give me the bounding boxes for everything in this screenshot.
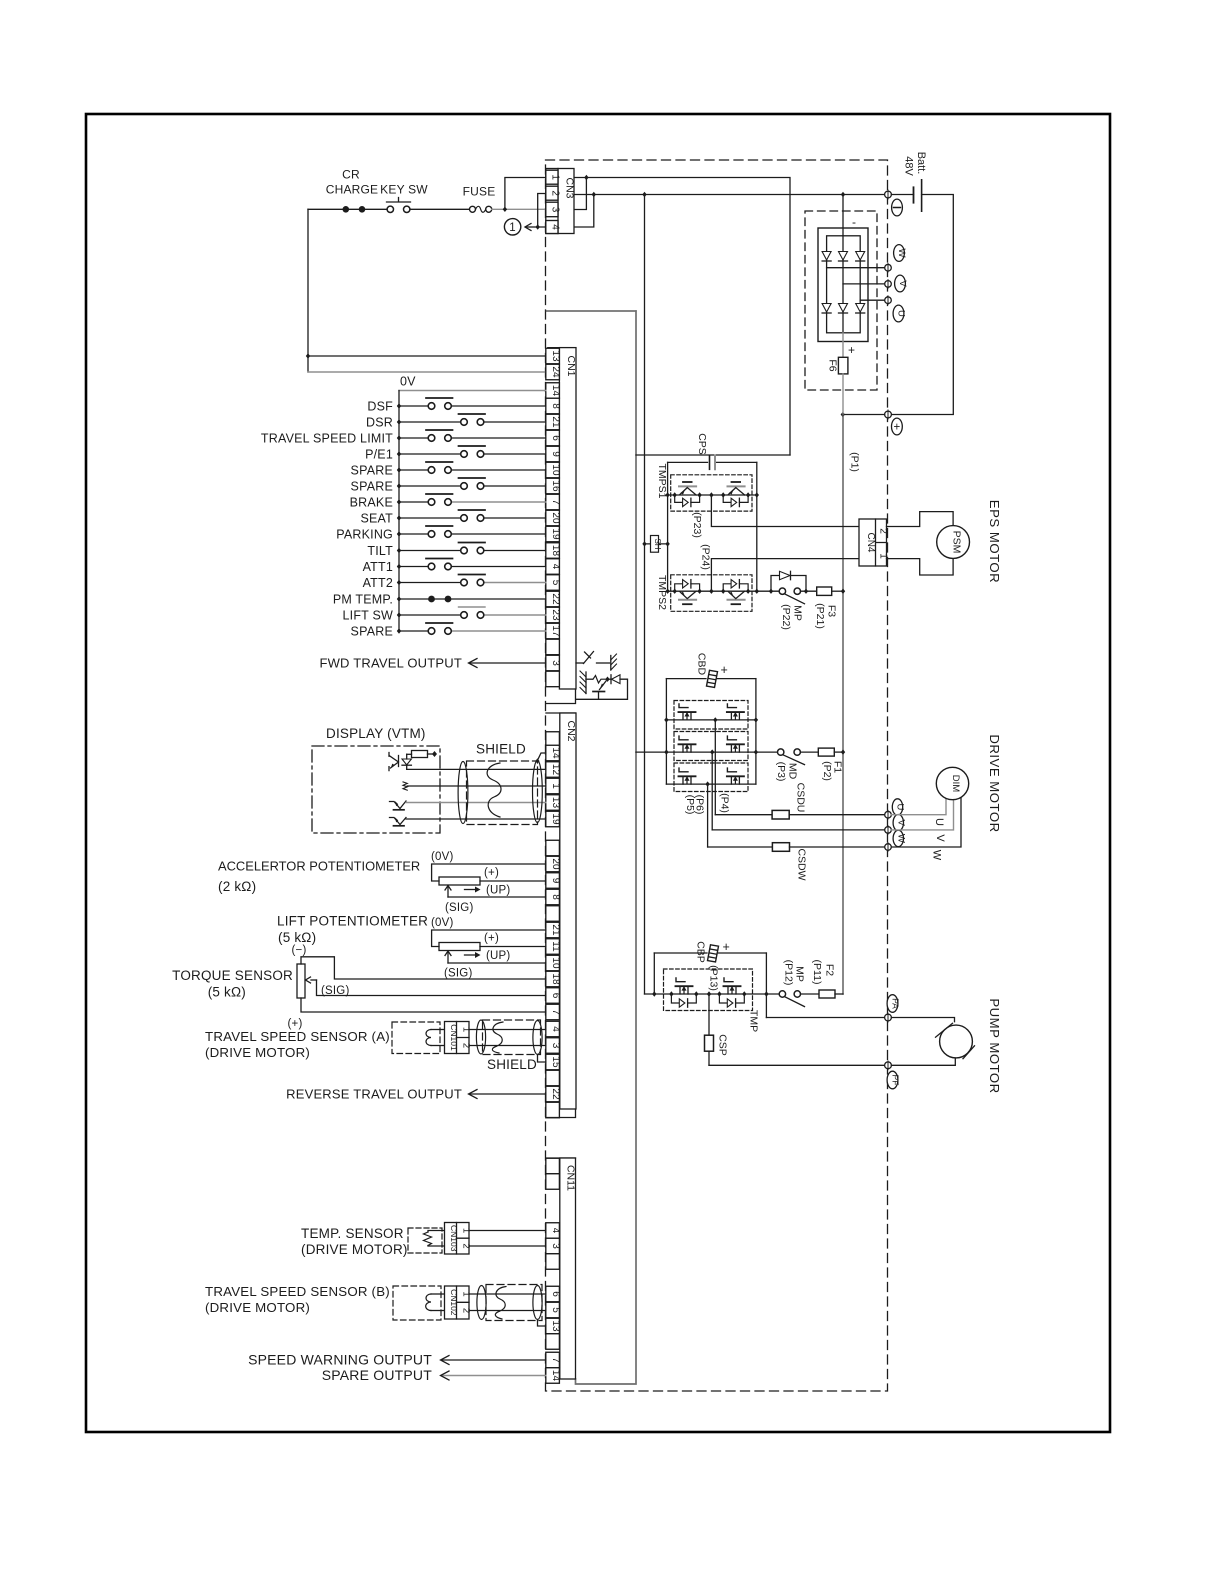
motor DIM (drive)	[936, 767, 968, 799]
svg-text:PSM: PSM	[951, 531, 963, 554]
wire: sensor B to pin5	[469, 1310, 546, 1312]
speed sensor A dashed box	[392, 1022, 440, 1054]
svg-text:(0V): (0V)	[431, 851, 454, 863]
svg-text:4: 4	[549, 224, 560, 230]
wire: TMPS2 output to CN4 pin1 (P24)	[711, 559, 876, 592]
svg-text:1: 1	[509, 222, 516, 234]
svg-text:SPARE: SPARE	[351, 625, 393, 639]
fuse F6	[842, 333, 844, 358]
CN1 pin 9	[546, 446, 560, 462]
svg-text:14: 14	[550, 1370, 561, 1382]
svg-text:(+): (+)	[484, 867, 499, 879]
CN1 pin 23	[546, 607, 560, 623]
terminal U	[885, 811, 892, 818]
wire: CN3 pin3 riser joins pin1 line	[574, 178, 586, 210]
wire	[891, 194, 913, 196]
switch MP (P22) EPS	[779, 588, 785, 594]
sensor A coil	[431, 1029, 445, 1031]
label (U) ellipse	[893, 305, 904, 322]
svg-text:W: W	[896, 834, 907, 843]
connector CN3	[546, 169, 574, 234]
terminal U	[885, 297, 892, 304]
svg-text:CPS: CPS	[696, 433, 708, 455]
CN2 pin 14	[546, 745, 560, 761]
svg-text:F3: F3	[826, 605, 838, 617]
wire: link battery-negative feed y=455	[636, 454, 790, 456]
label (-) ellipse	[892, 199, 903, 216]
CN11 pin 13	[546, 1318, 560, 1334]
svg-text:CSP: CSP	[717, 1034, 729, 1056]
svg-text:TILT: TILT	[367, 544, 393, 558]
svg-text:ATT1: ATT1	[363, 560, 393, 574]
junction	[605, 677, 609, 682]
svg-text:7: 7	[550, 1009, 561, 1015]
transistor driver	[600, 681, 607, 690]
display resistor	[412, 751, 428, 758]
connector CN101	[445, 1022, 470, 1054]
svg-text:SHIELD: SHIELD	[476, 742, 526, 757]
CN1 pin 16	[546, 478, 560, 494]
wire: rectifier negative feed	[842, 195, 844, 236]
svg-text:0V: 0V	[400, 375, 416, 389]
CN3 pin 3	[546, 202, 558, 217]
svg-text:CN2: CN2	[565, 720, 577, 741]
switch SPARE input	[399, 485, 461, 487]
CN3 pin 4	[546, 221, 558, 234]
svg-text:+: +	[894, 422, 901, 434]
svg-text:CR: CR	[342, 168, 360, 182]
wire: sensor A to pin3	[469, 1045, 546, 1047]
svg-text:U: U	[895, 804, 906, 811]
chassis symbol right	[610, 656, 612, 671]
svg-text:REVERSE TRAVEL OUTPUT: REVERSE TRAVEL OUTPUT	[286, 1087, 462, 1102]
wire: FWD TRAVEL OUTPUT arrow	[470, 662, 546, 664]
page border frame	[86, 114, 1110, 1432]
CN11 pin 4	[546, 1223, 560, 1239]
CN1 pin 14	[546, 383, 560, 399]
svg-text:5: 5	[550, 580, 561, 586]
svg-text:V: V	[934, 834, 946, 842]
svg-text:20: 20	[550, 858, 561, 870]
connector CN103	[445, 1223, 470, 1255]
svg-text:(P2): (P2)	[821, 761, 833, 781]
svg-text:DRIVE MOTOR: DRIVE MOTOR	[987, 734, 1002, 832]
wire: positive row to P1	[843, 414, 885, 416]
connector CN4	[859, 519, 887, 566]
svg-text:ATT2: ATT2	[363, 576, 393, 590]
current sensor CSDU	[715, 814, 772, 816]
svg-text:CN103: CN103	[449, 1225, 459, 1252]
wire: U phase riser (P4)	[714, 720, 716, 815]
svg-text:10: 10	[550, 957, 561, 969]
svg-text:(DRIVE MOTOR): (DRIVE MOTOR)	[205, 1045, 310, 1060]
relay coil	[586, 678, 593, 680]
svg-text:CN1: CN1	[565, 355, 577, 376]
diode rectifier top column 3	[856, 252, 865, 261]
CN1 pin 18	[546, 543, 560, 559]
CN1 pin 22	[546, 591, 560, 607]
wire: CN3 pin2/pin4 left tie	[538, 194, 546, 228]
capacitor CBP	[654, 952, 766, 954]
svg-text:CN101: CN101	[449, 1024, 459, 1051]
speed sensor B dashed box	[393, 1286, 441, 1320]
junction: negative bus top	[642, 192, 646, 197]
wire: drive bridge negative feed	[636, 751, 666, 753]
wire: riser to CN3 pin1	[505, 178, 546, 210]
svg-text:P/E1: P/E1	[365, 448, 393, 462]
CN1 pin 4	[546, 559, 560, 575]
svg-text:CN11: CN11	[565, 1165, 577, 1191]
CN2 blank cell	[546, 840, 560, 856]
CN11 pin 5	[546, 1302, 560, 1318]
switch SPARE input	[399, 630, 428, 632]
fuse F2 (P11)	[801, 993, 820, 995]
terminal PF	[885, 1062, 892, 1069]
acc pot wiper to pin8	[448, 896, 546, 898]
lift pot wiper to pin10	[448, 962, 546, 964]
svg-text:CSDW: CSDW	[796, 848, 808, 880]
CN2 connector bottom skirt	[546, 1109, 576, 1118]
svg-text:4: 4	[550, 564, 561, 570]
wire: sensor A to pin4	[469, 1029, 546, 1031]
junction	[584, 175, 588, 180]
wire: W phase riser	[707, 784, 709, 847]
svg-text:22: 22	[550, 1088, 561, 1100]
wire: pump bus	[645, 993, 780, 995]
wire: P1 positive rail (x=843)	[842, 415, 844, 995]
wire: rectifier mid column	[842, 236, 844, 333]
svg-text:EPS MOTOR: EPS MOTOR	[987, 500, 1002, 583]
charger rectifier dashed enclosure	[805, 211, 877, 390]
(UP) arrow lift	[465, 954, 479, 956]
wire: battery minus row from CN3 pin2	[574, 194, 885, 196]
svg-text:TRAVEL SPEED LIMIT: TRAVEL SPEED LIMIT	[261, 432, 393, 446]
capacitor CPS	[668, 461, 757, 463]
label (W) ellipse	[893, 830, 903, 846]
switch DSF input	[399, 405, 428, 407]
CN2 pin 15	[546, 1054, 560, 1070]
wire: display to CN2 pin1	[407, 785, 546, 787]
svg-text:(P11): (P11)	[811, 960, 823, 985]
wire	[410, 208, 469, 210]
svg-text:U: U	[933, 818, 945, 826]
battery Batt. 48V	[913, 187, 915, 202]
CN2 pin 1	[546, 778, 560, 794]
CN2 pin 3	[546, 1038, 560, 1054]
display zener	[402, 759, 411, 765]
connector CN1	[548, 347, 576, 349]
svg-text:SHIELD: SHIELD	[487, 1057, 537, 1072]
svg-text:22: 22	[550, 593, 561, 605]
motor PSM (EPS)	[937, 526, 970, 559]
svg-text:PF: PF	[891, 1075, 901, 1086]
transistor module TMPS1	[671, 475, 752, 511]
svg-text:9: 9	[550, 878, 561, 884]
CN2 pin 18	[546, 971, 560, 987]
relay contact (FWD output driver)	[576, 662, 584, 664]
svg-text:CN4: CN4	[865, 532, 876, 552]
CN1 pin 17	[546, 623, 560, 639]
switch ATT2 input	[399, 582, 461, 584]
current sensor CSDW	[708, 846, 773, 848]
svg-text:-: -	[852, 215, 856, 229]
wire: display to CN2 pin13 (gray)	[406, 802, 546, 804]
display transistor row3	[390, 801, 407, 809]
svg-text:(0V): (0V)	[431, 917, 454, 929]
svg-text:PARKING: PARKING	[336, 528, 393, 542]
svg-text:(P21): (P21)	[814, 603, 826, 629]
svg-text:V: V	[896, 820, 907, 827]
label (V) ellipse	[895, 275, 906, 292]
node 1 circle	[504, 219, 520, 235]
svg-text:10: 10	[550, 464, 561, 476]
svg-text:1: 1	[550, 783, 561, 789]
transistor module drive row	[674, 732, 748, 761]
wire: CN3 pin1 to x=790 drop	[574, 178, 790, 456]
terminal W	[885, 844, 892, 851]
transistor module TMPS2	[671, 575, 752, 612]
svg-text:3: 3	[550, 1243, 561, 1249]
svg-text:7: 7	[550, 499, 561, 505]
CN2 pin 21	[546, 922, 560, 938]
svg-text:FWD TRAVEL OUTPUT: FWD TRAVEL OUTPUT	[319, 656, 462, 671]
temp sensor thermistor	[428, 1231, 445, 1233]
fuse FUSE	[470, 206, 476, 212]
switch SEAT input	[399, 517, 461, 519]
junctions drive verticals	[664, 717, 668, 722]
wire: temp sensor to pin3	[469, 1245, 546, 1247]
CN1 pin 10	[546, 462, 560, 478]
svg-text:PA: PA	[891, 998, 901, 1009]
CN1 pin 3	[546, 655, 560, 671]
svg-text:(UP): (UP)	[486, 950, 510, 962]
CN2 blank cell	[546, 906, 560, 922]
svg-text:F6: F6	[827, 359, 839, 371]
svg-text:16: 16	[550, 480, 561, 492]
wire: CBP left lead	[653, 953, 655, 994]
wire: PF return row	[709, 1064, 885, 1066]
svg-text:W: W	[931, 850, 943, 861]
switch MP (P12) pump	[779, 991, 785, 997]
svg-text:(P6): (P6)	[694, 795, 706, 815]
terminal PA	[885, 1014, 892, 1021]
svg-text:TEMP. SENSOR: TEMP. SENSOR	[301, 1226, 404, 1241]
svg-text:TRAVEL SPEED SENSOR (B): TRAVEL SPEED SENSOR (B)	[205, 1284, 390, 1299]
CN2 pin 20	[546, 856, 560, 872]
svg-text:(−): (−)	[292, 945, 307, 957]
wire: input common bus	[398, 391, 400, 632]
svg-text:12: 12	[550, 764, 561, 776]
junction	[503, 207, 507, 212]
svg-text:3: 3	[549, 207, 560, 213]
wire: 0V to pin 14 (gray)	[399, 390, 546, 392]
svg-text:11: 11	[550, 941, 561, 952]
sensor B coil	[431, 1293, 445, 1295]
wire: U to drive motor (gray)	[891, 796, 946, 814]
switch SPARE input	[399, 469, 428, 471]
wire: lift pot (+) to pin11	[480, 946, 546, 948]
svg-text:SPARE: SPARE	[351, 480, 393, 494]
svg-text:3: 3	[550, 1043, 561, 1049]
drive bridge row wire y=752.1	[666, 751, 756, 753]
CN1 blank cell	[546, 639, 560, 655]
svg-text:CBP: CBP	[695, 941, 707, 963]
svg-text:DSR: DSR	[366, 416, 393, 430]
wire: TMPS1 output to CN4 pin2 (P23)	[711, 495, 876, 527]
svg-text:6: 6	[550, 1291, 561, 1297]
current sensor CSP	[708, 994, 710, 1035]
switch MD (P3)	[756, 751, 778, 753]
pump motor	[891, 1018, 954, 1022]
junction P1/F3	[841, 589, 845, 594]
CN2 pin 4	[546, 1021, 560, 1037]
CN11 blank cell	[546, 1174, 560, 1190]
CN3 pin 2	[546, 186, 558, 200]
svg-text:(DRIVE MOTOR): (DRIVE MOTOR)	[205, 1300, 310, 1315]
shield drain to pin15	[538, 1055, 546, 1063]
rectifier bus frame	[827, 236, 861, 333]
svg-text:SH: SH	[653, 538, 662, 549]
CN3 pin 1	[546, 170, 558, 184]
CN11 blank cell	[546, 1334, 560, 1350]
display transistor row4	[390, 818, 407, 825]
svg-text:DIM: DIM	[950, 775, 961, 793]
wire: CHARGE/KEY/FUSE row	[308, 208, 343, 210]
CN2 blank cell	[546, 732, 560, 748]
svg-text:CBD: CBD	[696, 653, 708, 676]
CN1 pin 8	[546, 398, 560, 414]
svg-text:DSF: DSF	[367, 400, 393, 414]
svg-text:MD: MD	[787, 763, 799, 780]
CN11 pin 7	[546, 1352, 560, 1368]
terminal: battery positive	[885, 411, 892, 418]
junction	[536, 224, 540, 229]
wire: SPEED WARNING OUTPUT arrow	[442, 1359, 546, 1361]
CN2 pin 9	[546, 873, 560, 889]
rectifier inner case	[818, 228, 868, 342]
CN2 pin 22	[546, 1086, 560, 1102]
wire: torque (-) to pin18	[301, 957, 546, 979]
svg-text:LIFT SW: LIFT SW	[343, 609, 393, 623]
CN2 blank cell	[546, 1102, 560, 1118]
CN1 pin 6	[546, 430, 560, 446]
wire: display to CN2 pin12	[407, 768, 546, 770]
wire: key switch feed from CN1 (x=308 riser)	[307, 209, 309, 372]
svg-text:8: 8	[550, 403, 561, 409]
wire: battery negative bus (vertical x=644.5)	[644, 195, 646, 995]
svg-text:F2: F2	[824, 964, 836, 976]
shunt SH	[645, 543, 668, 545]
potentiometer lift	[439, 943, 480, 951]
wire: SPARE OUTPUT arrow (gray)	[442, 1375, 546, 1377]
(UP) arrow	[465, 889, 479, 891]
svg-text:(P22): (P22)	[780, 604, 792, 630]
CN11 blank cell	[546, 1254, 560, 1270]
svg-text:BRAKE: BRAKE	[350, 496, 393, 510]
wire: pump output riser	[765, 953, 767, 1018]
CN2 pin 11	[546, 939, 560, 955]
transistor module drive row	[674, 701, 748, 730]
wire: battery positive down right side	[891, 195, 953, 415]
wire: lift pot 0V to pin21	[432, 930, 546, 947]
svg-text:6: 6	[550, 435, 561, 441]
svg-text:21: 21	[550, 416, 561, 428]
svg-text:2: 2	[549, 190, 560, 196]
display opto transistor top	[388, 753, 390, 771]
label (V) ellipse	[893, 815, 903, 831]
svg-text:PUMP MOTOR: PUMP MOTOR	[987, 998, 1002, 1093]
svg-text:24: 24	[550, 366, 561, 378]
svg-text:KEY SW: KEY SW	[380, 183, 428, 197]
wire: U phase tap	[860, 299, 884, 301]
CN1 pin 21	[546, 414, 560, 430]
wire: W to drive motor	[891, 797, 961, 847]
svg-text:ACCELERTOR POTENTIOMETER: ACCELERTOR POTENTIOMETER	[218, 859, 420, 874]
CN2 blank cell	[546, 1070, 560, 1086]
switch PARKING input	[399, 533, 428, 535]
terminal V	[885, 827, 892, 834]
wire: CN4 pin1 to PSM	[887, 558, 954, 575]
CN11 pin 6	[546, 1286, 560, 1302]
wire: fuse to CN3 pin3 (gray)	[492, 208, 546, 210]
fuse F3 (P21)	[801, 590, 817, 592]
svg-text:14: 14	[550, 747, 561, 759]
display VTM dash-dot box	[312, 746, 440, 833]
wire: CN4 pin2 to PSM	[887, 512, 954, 527]
switch ATT1 input	[399, 566, 428, 568]
wire: sensor B to pin6	[469, 1293, 546, 1295]
CN11 pin 3	[546, 1238, 560, 1254]
svg-text:9: 9	[550, 451, 561, 457]
svg-text:LIFT POTENTIOMETER: LIFT POTENTIOMETER	[277, 914, 428, 929]
wire: V phase tap	[843, 283, 885, 285]
svg-text:SEAT: SEAT	[360, 512, 393, 526]
CN1 connector bottom skirt	[546, 689, 576, 704]
svg-text:7: 7	[550, 1357, 561, 1363]
label (U) ellipse	[892, 799, 902, 815]
connector CN2	[546, 712, 576, 714]
pump MOSFET unit left	[676, 985, 693, 987]
label (W) ellipse	[894, 245, 905, 262]
wire	[365, 208, 387, 210]
diode flyback	[608, 678, 611, 680]
shield drain to pin13	[538, 1321, 546, 1327]
svg-text:18: 18	[550, 545, 561, 557]
torque sensor body	[297, 964, 305, 998]
svg-text:17: 17	[550, 625, 561, 637]
wire: V phase row	[712, 829, 885, 831]
switch BRAKE input	[399, 501, 428, 503]
junction	[841, 412, 845, 417]
svg-text:19: 19	[550, 528, 561, 540]
wire: V to drive motor (gray)	[891, 800, 953, 830]
svg-text:(DRIVE MOTOR): (DRIVE MOTOR)	[301, 1242, 408, 1257]
svg-text:V: V	[897, 280, 908, 287]
svg-text:4: 4	[550, 1228, 561, 1234]
svg-text:(P12): (P12)	[783, 960, 795, 986]
switch P/E1 input	[399, 453, 461, 455]
junction	[592, 192, 596, 197]
connector CN11	[546, 1157, 576, 1159]
diode rectifier top column 1	[822, 252, 831, 261]
diode across MP (EPS)	[771, 576, 806, 592]
svg-text:MP: MP	[792, 605, 804, 621]
svg-text:SPARE: SPARE	[351, 464, 393, 478]
CN1 blank cell	[546, 671, 560, 687]
shield cable (sensor A)	[483, 1020, 541, 1055]
CN1 pin 24	[546, 364, 560, 380]
switch TRAVEL SPEED LIMIT input	[399, 437, 428, 439]
